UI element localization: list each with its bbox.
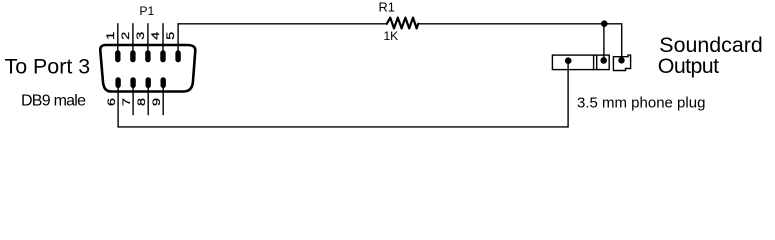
svg-text:P1: P1	[139, 4, 154, 18]
pin 2	[130, 50, 135, 62]
wire pin6 to plug sleeve	[118, 62, 568, 127]
pin 7	[130, 77, 135, 88]
svg-text:DB9 male: DB9 male	[21, 93, 86, 110]
pin 4	[160, 50, 165, 62]
pin 8	[146, 77, 151, 88]
pin 8 stub wire	[147, 87, 149, 115]
plug ring separator line 1	[593, 55, 595, 70]
plug tip contact dot	[618, 57, 624, 63]
svg-text:Output: Output	[658, 54, 719, 78]
plug sleeve contact dot	[565, 57, 572, 64]
junction node dot	[601, 20, 608, 27]
phone plug body (sleeve)	[552, 55, 609, 70]
pin 7 stub wire	[132, 87, 134, 115]
svg-text:3: 3	[135, 32, 147, 40]
pin 2 wire	[132, 23, 134, 53]
pin 1	[115, 50, 120, 62]
svg-text:4: 4	[150, 32, 162, 40]
pin 4 wire	[162, 23, 164, 53]
plug tip outline	[613, 55, 630, 70]
pin 3	[145, 50, 150, 62]
svg-text:R1: R1	[379, 0, 395, 15]
pin 6	[115, 77, 120, 88]
svg-text:8: 8	[136, 98, 148, 106]
svg-text:1K: 1K	[384, 29, 399, 43]
svg-text:3.5 mm phone plug: 3.5 mm phone plug	[577, 95, 705, 112]
svg-text:7: 7	[121, 98, 133, 106]
wire pin5 to resistor	[178, 24, 387, 53]
svg-text:To Port 3: To Port 3	[5, 55, 91, 79]
pin 9	[161, 77, 166, 88]
pin 5	[175, 50, 180, 62]
plug ring contact dot	[600, 57, 607, 64]
wire resistor to plug, corner down to tip	[418, 24, 622, 60]
pin 3 wire	[147, 23, 149, 53]
svg-text:6: 6	[106, 98, 118, 106]
pin 1 wire	[117, 23, 119, 53]
connector P1 DB9 male body	[100, 45, 195, 92]
pin 9 stub wire	[162, 87, 164, 115]
svg-text:5: 5	[165, 32, 177, 40]
svg-text:9: 9	[151, 98, 163, 106]
resistor R1	[387, 18, 418, 29]
plug ring separator line 2	[596, 55, 598, 70]
svg-text:2: 2	[120, 32, 132, 40]
wire junction down to ring contact	[603, 24, 605, 60]
svg-text:1: 1	[105, 32, 117, 40]
